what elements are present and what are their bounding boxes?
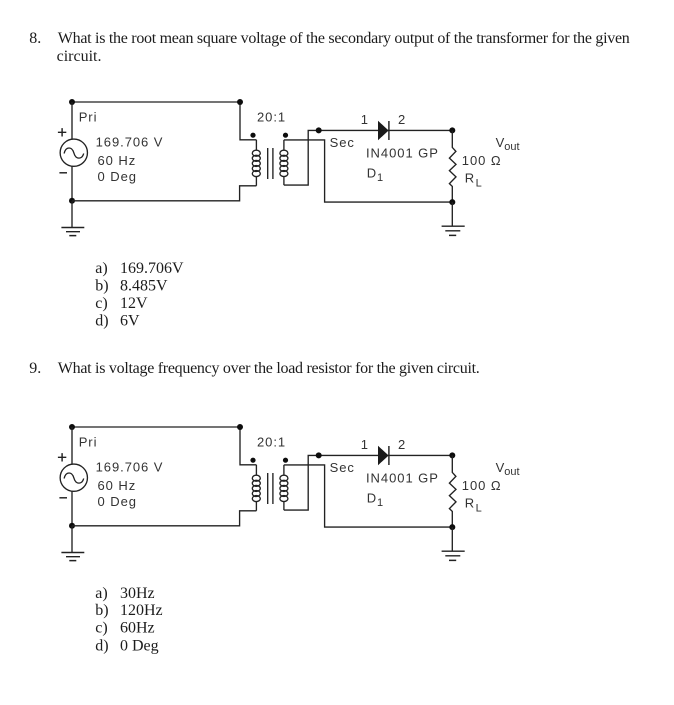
wire bottom rail primary loop (c2) <box>72 511 256 526</box>
transformer primary winding <box>252 140 260 186</box>
node junction dot resistor top <box>449 127 455 133</box>
wire secondary top to output bottom rail <box>284 140 452 202</box>
svg-text:a): a) <box>95 585 107 602</box>
svg-text:Sec: Sec <box>330 460 355 475</box>
wire bottom rail primary loop <box>72 186 256 201</box>
diode D1 cathode bar (c2) <box>388 446 390 465</box>
wire ground lead right <box>451 202 453 226</box>
minus polarity mark (c2) <box>59 497 67 499</box>
svg-text:2: 2 <box>398 437 406 452</box>
wire secondary bottom to output top rail <box>284 130 452 185</box>
transformer secondary winding (c2) <box>280 465 288 510</box>
wire secondary top to output bottom rail (c2) <box>284 465 452 527</box>
node junction dot top-left <box>69 99 75 105</box>
node junction dot sec rail (c2) <box>316 452 322 458</box>
transformer core lines (c2) <box>268 473 273 504</box>
ground symbol right <box>442 226 465 235</box>
svg-text:60Hz: 60Hz <box>120 620 155 637</box>
diode D1 cathode bar <box>388 121 390 140</box>
svg-text:L: L <box>476 177 482 189</box>
svg-text:b): b) <box>95 277 108 294</box>
wire secondary bottom to output top rail (c2) <box>284 455 452 510</box>
AC source sine symbol <box>64 148 84 158</box>
wire ground lead right (c2) <box>451 527 453 551</box>
svg-text:out: out <box>504 466 519 478</box>
node junction dot resistor top (c2) <box>449 452 455 458</box>
resistor RL zigzag (c2) <box>449 455 456 527</box>
svg-text:169.706 V: 169.706 V <box>96 460 164 475</box>
svg-text:100 Ω: 100 Ω <box>462 478 502 493</box>
svg-text:L: L <box>476 502 482 514</box>
svg-text:What is voltage frequency over: What is voltage frequency over the load … <box>58 360 480 377</box>
transformer primary phasing dot <box>250 133 255 138</box>
svg-text:Pri: Pri <box>79 434 98 449</box>
node junction dot bottom-left <box>69 198 75 204</box>
diode D1 triangle <box>378 121 389 140</box>
wire top rail from source to primary (c2) <box>72 426 240 428</box>
transformer primary winding (c2) <box>252 465 260 511</box>
svg-text:0 Deg: 0 Deg <box>98 169 137 184</box>
plus polarity mark <box>58 128 66 136</box>
svg-text:c): c) <box>95 295 107 312</box>
svg-text:8.485V: 8.485V <box>120 277 168 294</box>
node junction dot primary top <box>237 99 243 105</box>
svg-text:R: R <box>465 496 475 511</box>
node junction dot primary top (c2) <box>237 424 243 430</box>
wire top rail from source to primary <box>72 101 240 103</box>
wire source top lead (c2) <box>71 427 73 464</box>
svg-text:60 Hz: 60 Hz <box>98 153 137 168</box>
ground symbol left (c2) <box>61 553 84 561</box>
svg-text:6V: 6V <box>120 312 140 329</box>
svg-text:0 Deg: 0 Deg <box>120 637 159 654</box>
AC source V1 circle <box>60 139 87 166</box>
svg-text:30Hz: 30Hz <box>120 585 155 602</box>
svg-text:20:1: 20:1 <box>257 435 286 450</box>
svg-text:12V: 12V <box>120 295 148 312</box>
svg-text:1: 1 <box>377 172 383 184</box>
AC source sine symbol (c2) <box>64 473 84 483</box>
resistor RL zigzag <box>449 130 456 202</box>
transformer secondary phasing dot <box>283 133 288 138</box>
svg-text:Sec: Sec <box>330 135 355 150</box>
svg-text:169.706 V: 169.706 V <box>96 135 164 150</box>
wire ground lead left <box>71 201 73 228</box>
node junction dot sec rail <box>316 127 322 133</box>
AC source V1 circle (c2) <box>60 464 87 491</box>
node junction dot resistor bottom (c2) <box>449 524 455 530</box>
svg-text:8.: 8. <box>29 30 41 47</box>
wire primary top lead (c2) <box>240 427 256 465</box>
svg-text:b): b) <box>95 602 108 619</box>
transformer core lines <box>268 148 273 179</box>
svg-text:1: 1 <box>361 437 369 452</box>
wire primary top lead <box>240 102 256 140</box>
svg-text:R: R <box>465 171 475 186</box>
svg-text:d): d) <box>95 637 108 654</box>
transformer secondary phasing dot (c2) <box>283 458 288 463</box>
svg-text:120Hz: 120Hz <box>120 602 163 619</box>
svg-text:What is the root mean square v: What is the root mean square voltage of … <box>58 30 630 47</box>
ground symbol left <box>61 228 84 236</box>
svg-text:out: out <box>504 141 519 153</box>
svg-text:c): c) <box>95 620 107 637</box>
svg-text:2: 2 <box>398 112 406 127</box>
diode D1 triangle (c2) <box>378 446 389 465</box>
wire ground lead left (c2) <box>71 526 73 553</box>
svg-text:circuit.: circuit. <box>57 48 102 65</box>
svg-text:1: 1 <box>377 497 383 509</box>
svg-text:9.: 9. <box>29 360 41 377</box>
node junction dot top-left (c2) <box>69 424 75 430</box>
svg-text:IN4001 GP: IN4001 GP <box>366 471 439 486</box>
svg-text:a): a) <box>95 260 107 277</box>
svg-text:20:1: 20:1 <box>257 110 286 125</box>
wire source bottom lead (c2) <box>71 491 73 526</box>
node junction dot bottom-left (c2) <box>69 523 75 529</box>
svg-text:1: 1 <box>361 112 369 127</box>
svg-text:Pri: Pri <box>79 109 98 124</box>
svg-text:100 Ω: 100 Ω <box>462 153 502 168</box>
svg-text:60 Hz: 60 Hz <box>98 478 137 493</box>
node junction dot resistor bottom <box>449 199 455 205</box>
plus polarity mark (c2) <box>58 453 66 461</box>
transformer primary phasing dot (c2) <box>250 458 255 463</box>
transformer secondary winding <box>280 140 288 185</box>
svg-text:IN4001 GP: IN4001 GP <box>366 146 439 161</box>
svg-text:D: D <box>367 165 377 180</box>
wire source top lead <box>71 102 73 139</box>
ground symbol right (c2) <box>442 551 465 560</box>
minus polarity mark <box>59 172 67 174</box>
wire source bottom lead <box>71 166 73 201</box>
svg-text:169.706V: 169.706V <box>120 260 184 277</box>
svg-text:0 Deg: 0 Deg <box>98 494 137 509</box>
svg-text:D: D <box>367 490 377 505</box>
svg-text:d): d) <box>95 312 108 329</box>
